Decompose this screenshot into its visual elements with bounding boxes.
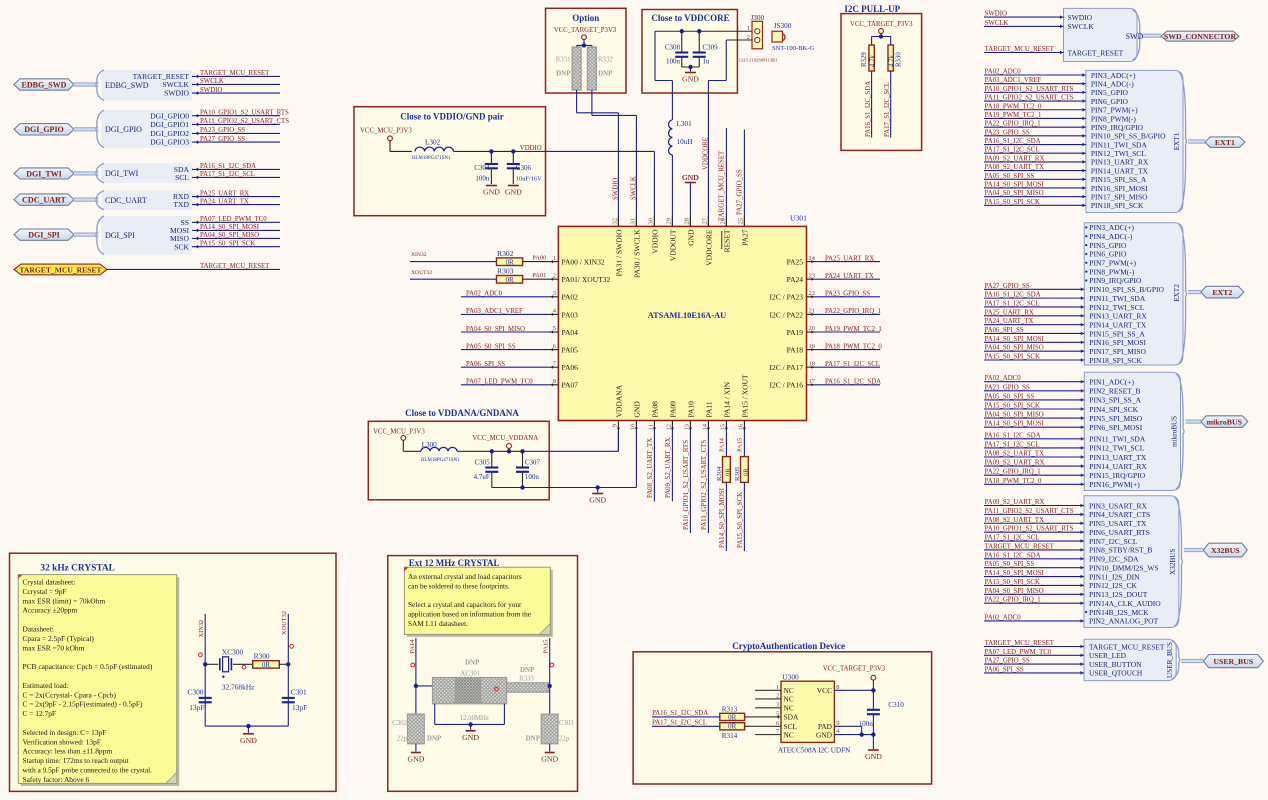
svg-text:PA05: PA05 xyxy=(562,346,579,355)
svg-text:PA18_PWM_TC2_0: PA18_PWM_TC2_0 xyxy=(825,343,882,350)
svg-text:DNP: DNP xyxy=(598,70,613,78)
net PA03_ADC1_VREF wire xyxy=(461,313,548,315)
svg-text:PIN7_PWM(+): PIN7_PWM(+) xyxy=(1091,106,1138,115)
svg-text:PA27_GPIO_SS: PA27_GPIO_SS xyxy=(200,136,245,143)
svg-text:PA14_S0_SPI_MOSI: PA14_S0_SPI_MOSI xyxy=(719,487,726,548)
svg-text:22p: 22p xyxy=(397,736,408,743)
svg-text:13: 13 xyxy=(684,424,691,431)
harness connector block EDBG_SWD xyxy=(102,70,193,101)
harness block X32BUS xyxy=(1084,496,1179,628)
svg-text:can be soldered to these footp: can be soldered to these footprints. xyxy=(408,581,510,590)
svg-text:PA16_S1_I2C_SDA: PA16_S1_I2C_SDA xyxy=(985,552,1041,559)
svg-text:with a 9.5pF probe connected t: with a 9.5pF probe connected to the crys… xyxy=(23,766,153,775)
svg-text:PIN6_GPIO: PIN6_GPIO xyxy=(1089,250,1127,259)
svg-text:PA16_S1_I2C_SDA: PA16_S1_I2C_SDA xyxy=(985,432,1041,439)
power VCC_TARGET_P3V3 xyxy=(582,35,587,40)
svg-text:PA11_GPIO2_S2_USART_CTS: PA11_GPIO2_S2_USART_CTS xyxy=(985,95,1074,102)
svg-text:PIN17_SPI_MISO: PIN17_SPI_MISO xyxy=(1089,347,1146,356)
svg-text:15: 15 xyxy=(720,424,727,431)
wire PA08 column xyxy=(653,431,655,502)
port EXT2 xyxy=(1201,286,1244,298)
svg-text:Ext 12 MHz CRYSTAL: Ext 12 MHz CRYSTAL xyxy=(409,558,500,568)
svg-text:PA09: PA09 xyxy=(668,401,677,418)
svg-text:PA09_S2_UART_RX: PA09_S2_UART_RX xyxy=(985,499,1045,506)
power VCC_TARGET_P3V3 (crypto) xyxy=(871,675,876,680)
svg-text:DGI_SPI: DGI_SPI xyxy=(28,230,60,239)
ground GND (C306) xyxy=(508,185,519,187)
svg-text:SWDIO: SWDIO xyxy=(1068,13,1093,22)
svg-text:VDDCORE: VDDCORE xyxy=(703,137,710,170)
port DGI_TWI xyxy=(14,168,74,179)
svg-text:5: 5 xyxy=(553,325,556,332)
svg-text:BLM18PG471SN1: BLM18PG471SN1 xyxy=(412,156,451,161)
svg-text:9: 9 xyxy=(612,424,619,427)
svg-text:PA05_S0_SPI_SS: PA05_S0_SPI_SS xyxy=(466,343,516,350)
svg-text:PA27: PA27 xyxy=(740,229,749,246)
svg-text:10uF/16V: 10uF/16V xyxy=(516,176,542,183)
svg-text:DGI_GPIO2: DGI_GPIO2 xyxy=(150,129,189,138)
svg-text:An external crystal and load c: An external crystal and load capacitors xyxy=(408,572,522,581)
wire SWDIO column xyxy=(576,90,578,113)
svg-text:TARGET_MCU_RESET: TARGET_MCU_RESET xyxy=(985,46,1055,53)
svg-text:R331: R331 xyxy=(556,57,571,64)
svg-text:PIN6_SPI_MOSI: PIN6_SPI_MOSI xyxy=(1089,423,1142,432)
svg-text:PIN8_STBY/RST_B: PIN8_STBY/RST_B xyxy=(1089,546,1152,555)
svg-text:PA17_S1_I2C_SCL: PA17_S1_I2C_SCL xyxy=(884,82,891,137)
harness cable DGI_GPIO xyxy=(74,127,99,131)
svg-text:13pF: 13pF xyxy=(292,703,307,712)
note crystal datasheet xyxy=(21,577,179,786)
svg-text:I2C PULL-UP: I2C PULL-UP xyxy=(844,4,900,14)
svg-text:XIN32: XIN32 xyxy=(411,252,427,258)
svg-text:VCC_TARGET_P3V3: VCC_TARGET_P3V3 xyxy=(823,666,886,673)
svg-text:GND: GND xyxy=(682,75,699,84)
wire TARGET_MCU_RESET column pin26 xyxy=(725,128,727,226)
wire PA10 column xyxy=(689,431,691,534)
svg-text:Close to VDDANA/GNDANA: Close to VDDANA/GNDANA xyxy=(405,408,519,418)
svg-text:EXT2: EXT2 xyxy=(1173,284,1181,302)
svg-text:PA18_PWM_TC2_0: PA18_PWM_TC2_0 xyxy=(985,478,1042,485)
svg-text:PA03: PA03 xyxy=(562,310,579,319)
svg-text:PA02_ADC0: PA02_ADC0 xyxy=(466,291,503,298)
ground GND (crystal) xyxy=(243,733,254,735)
svg-text:ATSAML10E16A-AU: ATSAML10E16A-AU xyxy=(648,311,726,320)
svg-text:PA15_S0_SPI_SCK: PA15_S0_SPI_SCK xyxy=(985,403,1040,410)
svg-text:GND: GND xyxy=(505,188,522,197)
svg-text:PIN3_SPI_SS_A: PIN3_SPI_SS_A xyxy=(1089,396,1141,405)
resistor R313 0R xyxy=(720,713,745,720)
svg-text:13pF: 13pF xyxy=(189,703,204,712)
resistor R303 0R xyxy=(497,276,523,284)
svg-text:PA03_ADC1_VREF: PA03_ADC1_VREF xyxy=(466,308,523,315)
port CDC_UART xyxy=(14,194,74,205)
svg-text:PA11_GPIO2_S2_USART_CTS: PA11_GPIO2_S2_USART_CTS xyxy=(701,440,708,530)
svg-text:PA18_PWM_TC2_0: PA18_PWM_TC2_0 xyxy=(985,103,1042,110)
svg-text:PA25_UART_RX: PA25_UART_RX xyxy=(825,255,874,262)
wire SWCLK column xyxy=(591,90,593,115)
svg-text:PA10: PA10 xyxy=(686,401,695,418)
ground GND (VDDCORE caps) xyxy=(685,72,696,74)
svg-text:1: 1 xyxy=(553,255,556,262)
svg-text:PA14_S0_SPI_MOSI: PA14_S0_SPI_MOSI xyxy=(985,421,1045,428)
svg-text:SWDIO: SWDIO xyxy=(164,89,189,98)
svg-text:mikroBUS: mikroBUS xyxy=(1171,416,1179,447)
svg-text:PA08_S2_UART_TX: PA08_S2_UART_TX xyxy=(985,164,1044,171)
harness connector block DGI_GPIO xyxy=(102,110,193,148)
svg-text:DNP: DNP xyxy=(520,666,535,674)
svg-text:PIN4_ADC(-): PIN4_ADC(-) xyxy=(1091,79,1134,88)
svg-text:PA07: PA07 xyxy=(562,381,579,390)
Close to VDDCORE box xyxy=(642,10,737,94)
svg-text:GND: GND xyxy=(632,401,641,418)
svg-text:PA05_S0_SPI_SS: PA05_S0_SPI_SS xyxy=(985,393,1035,400)
svg-text:PIN17_SPI_MISO: PIN17_SPI_MISO xyxy=(1091,192,1148,201)
svg-text:JS300: JS300 xyxy=(774,22,792,30)
svg-text:PA09_S2_UART_RX: PA09_S2_UART_RX xyxy=(665,437,672,498)
svg-text:PA02_ADC0: PA02_ADC0 xyxy=(985,375,1022,382)
svg-text:L300: L300 xyxy=(422,441,438,449)
svg-text:PA07_LED_PWM_TC0: PA07_LED_PWM_TC0 xyxy=(466,379,533,386)
capacitor C306 10uF/16V xyxy=(512,151,514,163)
crystal case ground wires xyxy=(434,704,436,725)
harness cable USER_BUS xyxy=(1181,659,1203,663)
svg-text:EXT1: EXT1 xyxy=(1215,138,1235,147)
svg-text:SWD_CONNECTOR: SWD_CONNECTOR xyxy=(1164,32,1237,41)
svg-text:PA14: PA14 xyxy=(409,639,416,654)
svg-text:USER_BUTTON: USER_BUTTON xyxy=(1089,660,1142,669)
svg-text:Close to VDDIO/GND pair: Close to VDDIO/GND pair xyxy=(400,112,504,122)
svg-text:PA07_LED_PWM_TC0: PA07_LED_PWM_TC0 xyxy=(200,216,267,223)
svg-text:PIN18_SPI_SCK: PIN18_SPI_SCK xyxy=(1089,356,1142,365)
svg-text:SDA: SDA xyxy=(784,713,799,722)
svg-text:R313: R313 xyxy=(722,705,738,713)
svg-text:R302: R302 xyxy=(497,249,514,258)
svg-text:PA01/ XOUT32: PA01/ XOUT32 xyxy=(562,275,611,284)
resistor R330 4.7k xyxy=(888,45,893,71)
wire PA15 column 12MHz xyxy=(549,638,551,714)
svg-text:PA27_GPIO_SS: PA27_GPIO_SS xyxy=(985,658,1030,665)
svg-text:100n: 100n xyxy=(525,473,540,481)
svg-text:GND: GND xyxy=(682,173,699,182)
svg-text:PIN12_TWI_SCL: PIN12_TWI_SCL xyxy=(1089,444,1144,453)
svg-text:PA05_S0_SPI_SS: PA05_S0_SPI_SS xyxy=(985,173,1035,180)
wire PA17 SCL vertical xyxy=(890,71,892,138)
svg-text:32 kHz CRYSTAL: 32 kHz CRYSTAL xyxy=(40,564,115,574)
svg-text:R304: R304 xyxy=(716,466,723,481)
ground GND (crypto) xyxy=(868,749,879,751)
net PA19_PWM_TC2_1 wire xyxy=(817,331,881,333)
svg-text:PIN13_UART_RX: PIN13_UART_RX xyxy=(1091,158,1149,167)
svg-text:USER_LED: USER_LED xyxy=(1089,651,1127,660)
svg-text:X32BUS: X32BUS xyxy=(1211,546,1240,555)
svg-text:Selected in design: C= 13pF: Selected in design: C= 13pF xyxy=(23,728,107,737)
svg-text:DGI_TWI: DGI_TWI xyxy=(26,169,62,178)
resistor R314 0R xyxy=(720,723,745,730)
svg-text:PIN3_ADC(+): PIN3_ADC(+) xyxy=(1091,71,1136,80)
svg-text:BLM18PG471SN1: BLM18PG471SN1 xyxy=(421,458,460,463)
svg-text:Accuracy ±20ppm: Accuracy ±20ppm xyxy=(23,606,78,615)
svg-text:PIN13_UART_TX: PIN13_UART_TX xyxy=(1089,453,1147,462)
svg-text:TARGET_MCU_RESET: TARGET_MCU_RESET xyxy=(985,543,1055,550)
svg-text:PA04: PA04 xyxy=(562,328,579,337)
svg-text:PA03_ADC1_VREF: PA03_ADC1_VREF xyxy=(985,77,1042,84)
svg-text:PA08_S2_UART_TX: PA08_S2_UART_TX xyxy=(985,517,1044,524)
wire cap commons xyxy=(682,66,700,68)
svg-text:PIN16_SPI_MOSI: PIN16_SPI_MOSI xyxy=(1091,184,1148,193)
erc marker xyxy=(199,653,203,657)
port TARGET_MCU_RESET (yellow) xyxy=(14,264,107,275)
wire option rail xyxy=(577,44,592,46)
port mikroBUS xyxy=(1201,416,1248,428)
svg-text:Accuracy: less than ±11.8ppm: Accuracy: less than ±11.8ppm xyxy=(23,747,113,756)
svg-text:PA14_S0_SPI_MOSI: PA14_S0_SPI_MOSI xyxy=(985,336,1045,343)
svg-text:PA17_S1_I2C_SCL: PA17_S1_I2C_SCL xyxy=(200,171,255,178)
svg-text:12: 12 xyxy=(666,424,673,431)
svg-text:PIN5_SPI_MISO: PIN5_SPI_MISO xyxy=(1089,414,1143,423)
svg-text:2: 2 xyxy=(553,272,556,279)
power VCC_MCU_P3V3 (ana) xyxy=(401,436,406,441)
svg-text:GND: GND xyxy=(589,496,606,505)
svg-text:SWCLK: SWCLK xyxy=(1068,22,1095,31)
svg-text:PA27_GPIO_SS: PA27_GPIO_SS xyxy=(985,283,1030,290)
svg-text:Select a crystal and capacitor: Select a crystal and capacitors for your xyxy=(408,600,522,609)
net PA17 wire to R314 xyxy=(652,725,720,727)
wire PA16 SDA vertical xyxy=(871,71,873,138)
svg-text:PIN5_GPIO: PIN5_GPIO xyxy=(1089,241,1127,250)
svg-text:0R: 0R xyxy=(743,468,750,476)
svg-text:DGI_GPIO: DGI_GPIO xyxy=(105,125,142,134)
svg-text:SWDIO: SWDIO xyxy=(613,178,620,200)
harness cable X32BUS xyxy=(1184,548,1203,552)
svg-text:mikroBUS: mikroBUS xyxy=(1207,417,1242,426)
net PA02_ADC0 wire xyxy=(461,296,548,298)
wire pin9 connect xyxy=(617,431,619,452)
svg-text:PA02_ADC0: PA02_ADC0 xyxy=(985,69,1022,76)
svg-text:10: 10 xyxy=(630,424,637,431)
svg-text:TARGET_MCU_RESET: TARGET_MCU_RESET xyxy=(200,263,270,270)
svg-text:U301: U301 xyxy=(790,213,807,222)
note ext crystal xyxy=(407,570,553,637)
svg-text:U300: U300 xyxy=(782,672,799,681)
MCU U301 body xyxy=(558,226,806,420)
resistor R332 DNP xyxy=(587,47,596,90)
harness cable EXT1 xyxy=(1188,139,1205,143)
(bar only) xyxy=(689,183,691,227)
svg-text:PIN11_I2S_DIN: PIN11_I2S_DIN xyxy=(1089,572,1140,581)
svg-text:PA22_GPIO_IRQ_1: PA22_GPIO_IRQ_1 xyxy=(825,308,881,315)
svg-text:PA02_ADC0: PA02_ADC0 xyxy=(985,614,1022,621)
capacitor C300 13pF xyxy=(199,697,212,699)
svg-text:PA15_S0_SPI_SCK: PA15_S0_SPI_SCK xyxy=(985,579,1040,586)
Ext 12 MHz CRYSTAL box xyxy=(388,556,578,792)
svg-text:PIN4_SPI_SCK: PIN4_SPI_SCK xyxy=(1089,405,1138,414)
svg-text:PIN15_SPI_SS_A: PIN15_SPI_SS_A xyxy=(1089,329,1145,338)
svg-text:DGI_GPIO3: DGI_GPIO3 xyxy=(150,138,189,147)
svg-text:R332: R332 xyxy=(598,57,613,64)
svg-text:PIN14_UART_RX: PIN14_UART_RX xyxy=(1089,462,1147,471)
svg-text:NC: NC xyxy=(784,730,794,739)
svg-text:4.7k: 4.7k xyxy=(888,55,895,67)
capacitor C310 100n xyxy=(867,709,880,711)
svg-text:L302: L302 xyxy=(425,139,441,147)
svg-text:PA09_S2_UART_RX: PA09_S2_UART_RX xyxy=(985,460,1045,467)
svg-text:PIN12_TWI_SCL: PIN12_TWI_SCL xyxy=(1091,149,1146,158)
svg-text:DGI_TWI: DGI_TWI xyxy=(105,169,139,178)
capacitor C309 1u xyxy=(698,31,700,51)
inductor L302 BLM18PG471SN1 xyxy=(390,150,412,152)
erc marker xyxy=(495,687,499,691)
svg-text:PA02: PA02 xyxy=(562,293,579,302)
svg-text:0R: 0R xyxy=(728,713,737,721)
svg-text:14: 14 xyxy=(702,423,709,430)
net PA22_GPIO_IRQ_1 wire xyxy=(817,313,881,315)
svg-text:application based on informati: application based on information from th… xyxy=(408,610,531,619)
svg-text:PIN11_TWI_SDA: PIN11_TWI_SDA xyxy=(1091,140,1148,149)
power VCC_MCU_P3V3 xyxy=(388,136,393,141)
svg-text:GND: GND xyxy=(816,730,833,739)
svg-text:VCC_TARGET_P3V3: VCC_TARGET_P3V3 xyxy=(554,27,617,34)
svg-text:XC300: XC300 xyxy=(222,648,244,657)
harness block mikroBUS xyxy=(1084,372,1180,490)
SWD block xyxy=(1064,8,1138,61)
svg-text:26: 26 xyxy=(720,217,727,224)
net PA24_UART_TX wire xyxy=(817,278,881,280)
svg-text:PIN15_SPI_SS_A: PIN15_SPI_SS_A xyxy=(1091,175,1147,184)
svg-text:VDDIO: VDDIO xyxy=(650,229,659,254)
resistor R331 DNP xyxy=(572,47,581,90)
svg-text:PA10_GPIO1_S2_USART_RTS: PA10_GPIO1_S2_USART_RTS xyxy=(200,110,289,117)
wire VDDIO down to pin30 xyxy=(653,151,655,226)
svg-text:VDDIO: VDDIO xyxy=(520,145,542,152)
svg-text:PA24_UART_TX: PA24_UART_TX xyxy=(200,198,249,205)
svg-text:10uH: 10uH xyxy=(677,138,693,146)
svg-text:PA14_S0_SPI_MOSI: PA14_S0_SPI_MOSI xyxy=(200,224,260,231)
svg-text:PA15 / XOUT: PA15 / XOUT xyxy=(740,374,749,417)
resistor R304 0R vertical xyxy=(723,457,731,483)
svg-text:PA00 / XIN32: PA00 / XIN32 xyxy=(562,258,605,267)
harness cable EDBG_SWD xyxy=(74,82,99,86)
net PA06_SPI_SS wire xyxy=(461,366,548,368)
harness cable SWD xyxy=(1143,34,1161,38)
svg-text:PA14: PA14 xyxy=(718,437,725,452)
harness cable mikroBUS xyxy=(1186,420,1201,424)
svg-text:VCC_MCU_P3V3: VCC_MCU_P3V3 xyxy=(360,127,412,134)
svg-text:0R: 0R xyxy=(725,468,732,476)
port DGI_SPI xyxy=(14,229,74,240)
svg-text:12.00MHz: 12.00MHz xyxy=(460,715,489,722)
svg-text:USER_BUS: USER_BUS xyxy=(1213,657,1253,666)
svg-text:XC301: XC301 xyxy=(461,670,481,677)
svg-text:SWDIO: SWDIO xyxy=(985,11,1007,18)
svg-text:C303: C303 xyxy=(559,720,574,727)
svg-text:DNP: DNP xyxy=(526,735,541,743)
svg-text:PA04_S0_SPI_MISO: PA04_S0_SPI_MISO xyxy=(985,588,1044,595)
svg-text:PIN8_PWM(-): PIN8_PWM(-) xyxy=(1091,114,1136,123)
resistor R302 0R xyxy=(497,258,523,266)
svg-text:1: 1 xyxy=(747,25,750,32)
svg-text:0R: 0R xyxy=(505,276,514,284)
MCU top pin stubs xyxy=(617,216,619,226)
svg-text:31: 31 xyxy=(630,218,637,225)
net PA18_PWM_TC2_0 wire xyxy=(817,349,881,351)
svg-text:C308: C308 xyxy=(665,44,681,52)
svg-text:C310: C310 xyxy=(888,701,904,709)
svg-text:XOUT32: XOUT32 xyxy=(411,270,432,276)
erc marker xyxy=(290,644,294,648)
svg-text:NC: NC xyxy=(784,704,794,713)
svg-text:PIN14B_I2S_MCK: PIN14B_I2S_MCK xyxy=(1089,608,1149,617)
svg-text:11: 11 xyxy=(648,424,655,430)
svg-text:VCC: VCC xyxy=(817,686,832,695)
svg-text:0R: 0R xyxy=(728,723,737,731)
svg-text:PIN4_ADC(-): PIN4_ADC(-) xyxy=(1089,232,1132,241)
svg-text:PIN12_TWI_SCL: PIN12_TWI_SCL xyxy=(1089,303,1144,312)
svg-text:PA08_S2_UART_TX: PA08_S2_UART_TX xyxy=(985,451,1044,458)
svg-text:VCC_MCU_VDDANA: VCC_MCU_VDDANA xyxy=(472,435,538,442)
svg-text:PA23_GPIO_SS: PA23_GPIO_SS xyxy=(825,291,870,298)
svg-text:PA06_SPI_SS: PA06_SPI_SS xyxy=(985,327,1024,334)
crystal XC301 DNP xyxy=(433,678,507,704)
svg-text:TARGET_MCU_RESET: TARGET_MCU_RESET xyxy=(719,150,726,221)
svg-text:PA15_S0_SPI_SCK: PA15_S0_SPI_SCK xyxy=(737,492,744,548)
wire PA14 below R304 xyxy=(725,482,727,551)
svg-text:I2C / PA23: I2C / PA23 xyxy=(770,293,804,302)
svg-text:PIN11_TWI_SDA: PIN11_TWI_SDA xyxy=(1089,435,1146,444)
resistor R305 0R vertical xyxy=(741,457,749,483)
resistor R300 0R xyxy=(253,661,280,668)
harness connector block DGI_SPI xyxy=(102,216,193,255)
wire VDDANA pin9 down xyxy=(617,431,619,452)
wire R303 to PA01 xyxy=(523,278,548,280)
svg-text:1125-1102S08113R1: 1125-1102S08113R1 xyxy=(739,58,778,63)
svg-text:USER_BUS: USER_BUS xyxy=(1166,642,1174,678)
resistor R333 DNP xyxy=(507,683,549,692)
svg-text:PA08: PA08 xyxy=(650,401,659,418)
svg-text:Estimated load:: Estimated load: xyxy=(23,681,69,690)
capacitor C302 DNP xyxy=(408,714,425,744)
svg-text:VCC_TARGET_P3V3: VCC_TARGET_P3V3 xyxy=(850,21,913,28)
svg-text:PIN3_ADC(+): PIN3_ADC(+) xyxy=(1089,223,1134,232)
svg-text:PA25_UART_RX: PA25_UART_RX xyxy=(200,190,249,197)
ground GND (XC301) xyxy=(466,730,476,732)
svg-text:C300: C300 xyxy=(187,688,203,697)
svg-text:PA16_S1_I2C_SDA: PA16_S1_I2C_SDA xyxy=(652,710,708,717)
svg-text:VDDCORE: VDDCORE xyxy=(704,229,713,266)
svg-text:SAM L11 datasheet.: SAM L11 datasheet. xyxy=(408,619,468,628)
svg-text:PA16_S1_I2C_SDA: PA16_S1_I2C_SDA xyxy=(985,138,1041,145)
svg-text:PIN1_ADC(+): PIN1_ADC(+) xyxy=(1089,378,1134,387)
svg-text:L301: L301 xyxy=(677,120,693,128)
svg-text:TARGET_MCU_RESET: TARGET_MCU_RESET xyxy=(985,640,1055,647)
svg-text:SWCLK: SWCLK xyxy=(200,78,224,85)
inductor L301 10uH xyxy=(669,120,673,155)
svg-text:PA19_PWM_TC2_1: PA19_PWM_TC2_1 xyxy=(825,326,882,333)
svg-text:PA14 / XIN: PA14 / XIN xyxy=(722,381,731,417)
svg-text:PA17_S1_I2C_SCL: PA17_S1_I2C_SCL xyxy=(652,720,707,727)
svg-text:PA11_GPIO2_S2_USART_CTS: PA11_GPIO2_S2_USART_CTS xyxy=(200,118,289,125)
svg-text:PIN8_PWM(-): PIN8_PWM(-) xyxy=(1089,267,1134,276)
svg-text:GND: GND xyxy=(240,736,257,745)
svg-text:0R: 0R xyxy=(262,661,271,669)
svg-text:VDDANA: VDDANA xyxy=(614,384,623,417)
svg-text:PA25_UART_RX: PA25_UART_RX xyxy=(985,309,1034,316)
capacitor C304 100n xyxy=(490,151,492,163)
svg-text:PA17_S1_I2C_SCL: PA17_S1_I2C_SCL xyxy=(985,535,1040,542)
port SWD_CONNECTOR xyxy=(1161,31,1239,41)
svg-text:22p: 22p xyxy=(559,736,570,743)
svg-text:DGI_SPI: DGI_SPI xyxy=(105,231,135,240)
wire R302 to PA00 xyxy=(523,261,548,263)
